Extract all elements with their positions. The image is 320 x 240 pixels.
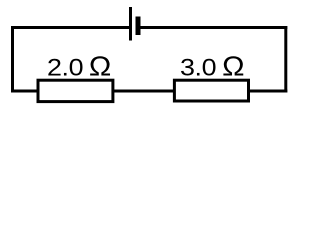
label: 3.0 value for R2 [180, 55, 216, 81]
battery long plate (positive terminal) [129, 7, 132, 41]
battery V1 [131, 7, 139, 41]
wire: top horizontal, right of battery [138, 26, 287, 29]
svg-text:Ω: Ω [89, 51, 111, 82]
wire: left vertical side of loop [11, 26, 14, 93]
svg-text:Ω: Ω [222, 51, 244, 82]
svg-text:3.0: 3.0 [180, 55, 216, 81]
wire: bottom left stub from loop to resistor R1 [11, 90, 38, 93]
svg-text:2.0: 2.0 [47, 55, 83, 81]
label: ohm symbol for R1 [89, 51, 111, 82]
wire: bottom middle between R1 and R2 [113, 90, 174, 93]
battery short thick plate (negative terminal) [136, 17, 141, 36]
resistor R2 box (3.0 ohm) [174, 80, 248, 101]
wire: bottom right stub from R2 to loop [249, 90, 288, 93]
label: 2.0 value for R1 [47, 55, 83, 81]
wire: right vertical side of loop [284, 26, 287, 93]
label: ohm symbol for R2 [222, 51, 244, 82]
resistor R1 box (2.0 ohm) [38, 80, 113, 101]
wire: top horizontal, left of battery [11, 26, 131, 29]
